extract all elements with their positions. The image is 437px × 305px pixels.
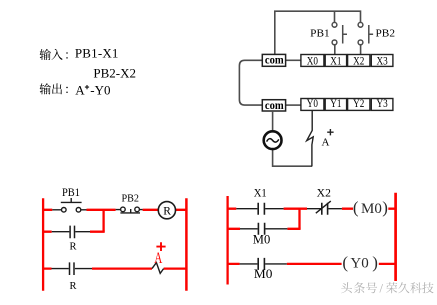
wire PB1 drop [334,11,336,22]
contact R branch plates [70,226,74,239]
wire top bus [275,11,361,54]
AC power source [264,131,282,149]
svg-text:/: / [380,281,384,295]
contact R branch wires [52,231,90,233]
terminal block com (input side) [262,54,285,66]
pushbutton PB2 bridge (NC) [120,209,140,213]
svg-text:PB1: PB1 [310,28,330,39]
svg-text:M0: M0 [254,267,273,281]
wire junction drop (plc) [298,209,300,229]
contact X2 slash [316,201,331,213]
wire rung1 black segments [52,209,86,211]
svg-text:R: R [70,281,77,292]
svg-text:PB1: PB1 [62,187,80,199]
svg-text:X1: X1 [330,56,341,68]
svg-text:PB2: PB2 [376,28,396,39]
wire rung2 red segments [43,267,186,269]
contact M0 rung2 wires [240,263,287,265]
svg-text:(: ( [353,198,359,217]
power rail left (relay ladder) [42,198,44,290]
svg-text:A: A [322,137,330,149]
pushbutton PB1 terminal circles [332,22,337,27]
wire PB2 bottom stub [360,45,362,55]
wire com1 to com2 loop [239,60,262,105]
pushbutton PB1 bridge (NO) [61,198,82,202]
svg-text:PB1-X1: PB1-X1 [75,45,119,60]
svg-text:(: ( [342,253,348,272]
watermark 头条号/荣久科技 [341,281,434,296]
contact X1 plates [258,203,264,215]
relay coil R [158,202,175,219]
svg-text:A: A [75,82,85,97]
wire rung1 red segments [43,209,186,211]
power rail right (relay ladder) [185,198,188,290]
wire PB1 bottom stub [334,45,336,55]
wire com2 down to source [272,111,274,130]
wire parallel branch red segments [43,231,105,233]
svg-text:R: R [70,242,77,253]
svg-text:): ) [372,253,378,272]
power rail right (plc ladder) [394,193,397,281]
pushbutton PB2 black segments [116,209,143,211]
pushbutton PB2 circles [121,207,126,212]
svg-text:X2: X2 [353,56,364,68]
wire rung2 red segments (plc) [228,263,396,265]
wire branch red segments (plc) [228,228,301,230]
contact X2 plates (NC) [322,203,328,215]
svg-text:PB2: PB2 [122,193,140,204]
label + (red lamp polarity) [156,242,165,251]
terminal block com (output side) [262,100,285,111]
terminal block X0-X3 [301,55,324,67]
svg-text:Y3: Y3 [377,98,388,110]
svg-text:X2: X2 [317,187,331,199]
terminal block Y0-Y3 [301,99,324,111]
pushbutton PB2 terminal circles [358,22,363,27]
svg-text:): ) [382,198,388,217]
contact M0 branch wires [240,228,287,230]
svg-text:Y2: Y2 [353,98,364,110]
wire com1 to X0 [286,59,301,61]
pushbutton PB2 actuator bar [369,25,373,44]
svg-text:M0: M0 [361,201,382,217]
svg-text:R: R [163,206,171,218]
pushbutton PB1 circles [62,208,67,213]
contact M0 branch plates [258,223,264,235]
svg-text:Y0: Y0 [307,98,318,110]
contact X1 wires [236,208,283,210]
wire com2 to Y0 [286,104,301,106]
contact R rung2 plates [70,262,75,275]
wire rung1 red segments (plc) [228,208,396,210]
svg-text:X3: X3 [377,56,388,68]
svg-text:com: com [265,98,284,112]
svg-text:Y1: Y1 [330,98,341,110]
lamp A zigzag rung2 [152,263,164,274]
node output mapping text line3 [40,82,111,97]
svg-text:Y0: Y0 [350,256,368,272]
svg-text:PB2-X2: PB2-X2 [93,66,136,81]
contact X2 wires [307,208,342,210]
wire source bottom loop [273,150,313,167]
contact M0 rung2 plates [258,258,264,270]
node input mapping text line1 [40,45,119,60]
svg-text:M0: M0 [253,233,270,247]
power rail left (plc ladder) [226,196,228,285]
contact R rung2 wires [52,268,93,270]
svg-text:com: com [265,53,284,67]
svg-text:A: A [154,249,162,266]
svg-text:X0: X0 [307,56,318,68]
svg-text:X1: X1 [254,187,267,199]
pushbutton PB1 actuator bar [343,25,347,44]
lamp A load branch from Y0 [307,111,314,167]
wire rung1 junction drop [102,210,104,232]
label + (lamp polarity) [327,129,333,135]
svg-text:-Y0: -Y0 [90,82,110,97]
